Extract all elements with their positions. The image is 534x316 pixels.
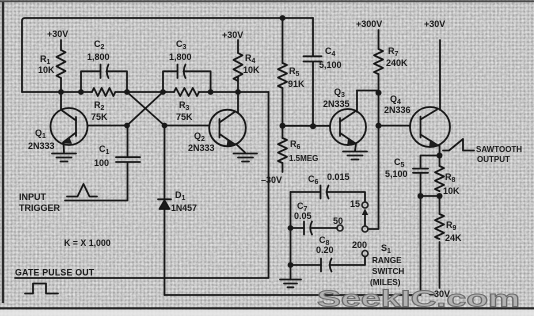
svg-text:2N335: 2N335 <box>323 99 350 109</box>
svg-text:0.05: 0.05 <box>294 211 312 221</box>
svg-text:200: 200 <box>352 240 367 250</box>
svg-text:1.5MEG: 1.5MEG <box>289 154 318 163</box>
svg-text:–30V: –30V <box>429 289 450 299</box>
svg-text:1N457: 1N457 <box>171 203 197 213</box>
svg-text:INPUT: INPUT <box>19 192 47 202</box>
svg-text:10K: 10K <box>443 186 460 196</box>
svg-text:50: 50 <box>333 216 343 226</box>
svg-text:1,800: 1,800 <box>169 52 192 62</box>
svg-text:TRIGGER: TRIGGER <box>19 203 61 213</box>
svg-text:2N336: 2N336 <box>384 105 411 115</box>
svg-text:OUTPUT: OUTPUT <box>477 155 510 164</box>
svg-text:15: 15 <box>350 199 360 209</box>
svg-text:K = X 1,000: K = X 1,000 <box>64 238 111 248</box>
svg-text:GATE PULSE OUT: GATE PULSE OUT <box>15 268 95 278</box>
svg-text:1,800: 1,800 <box>87 52 110 62</box>
svg-text:5,100: 5,100 <box>385 169 408 179</box>
svg-text:10K: 10K <box>38 65 55 75</box>
svg-text:+30V: +30V <box>222 30 243 40</box>
svg-text:75K: 75K <box>176 112 193 122</box>
svg-text:2N333: 2N333 <box>188 143 215 153</box>
svg-text:+300V: +300V <box>356 19 382 29</box>
svg-text:0.20: 0.20 <box>316 245 334 255</box>
svg-text:5,100: 5,100 <box>319 60 342 70</box>
svg-text:RANGE: RANGE <box>372 256 402 265</box>
svg-text:–30V: –30V <box>261 175 282 185</box>
svg-text:SWITCH: SWITCH <box>372 267 404 276</box>
svg-text:10K: 10K <box>243 65 260 75</box>
svg-text:100: 100 <box>94 158 109 168</box>
svg-text:75K: 75K <box>91 112 108 122</box>
svg-text:(MILES): (MILES) <box>370 278 401 287</box>
svg-text:+30V: +30V <box>424 19 445 29</box>
svg-text:240K: 240K <box>386 58 408 68</box>
svg-text:24K: 24K <box>445 233 462 243</box>
svg-text:SeekIC.com: SeekIC.com <box>317 286 520 312</box>
svg-text:+30V: +30V <box>47 29 68 39</box>
svg-text:91K: 91K <box>288 79 305 89</box>
svg-text:0.015: 0.015 <box>327 172 350 182</box>
svg-text:2N333: 2N333 <box>28 141 55 151</box>
svg-text:SAWTOOTH: SAWTOOTH <box>476 145 522 154</box>
